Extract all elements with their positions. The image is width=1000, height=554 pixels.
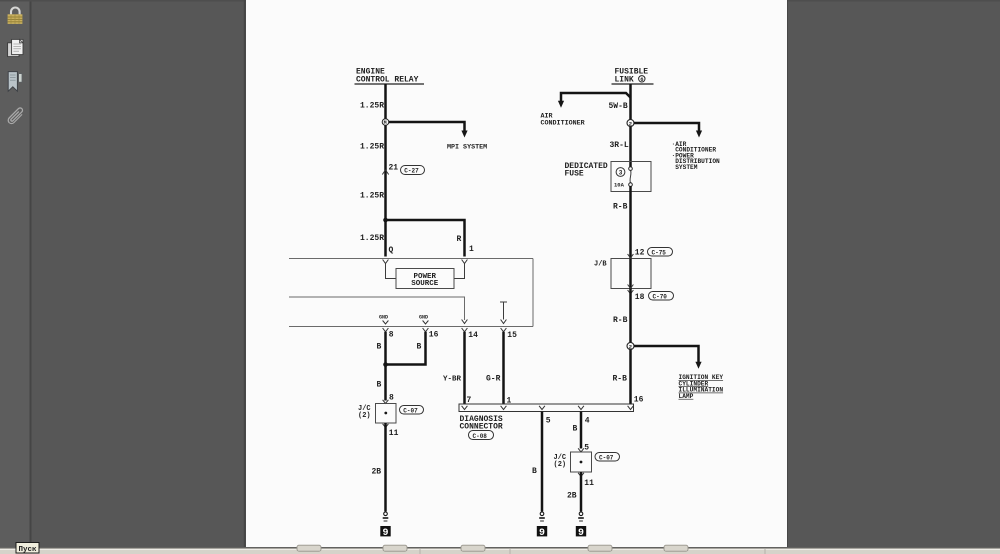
svg-text:GND: GND xyxy=(419,315,428,321)
wire arrow into power source left xyxy=(386,264,397,279)
svg-text:2B: 2B xyxy=(372,468,382,477)
fusible link FL label xyxy=(612,68,654,85)
pin 21 marker with chevron xyxy=(382,164,398,175)
wire fusible link down xyxy=(629,84,632,167)
paperclip icon xyxy=(8,108,22,124)
connector circle C1 on wire xyxy=(382,119,389,127)
sidebar xyxy=(0,0,30,548)
entry arrow pin7 xyxy=(462,406,468,410)
svg-text:G-R: G-R xyxy=(486,375,501,384)
svg-text:1.25R: 1.25R xyxy=(360,234,384,243)
ECU bottom boundary line xyxy=(289,326,533,328)
svg-text:C-08: C-08 xyxy=(473,433,488,440)
svg-text:Q: Q xyxy=(389,246,394,255)
wire pin4 to J/C right xyxy=(580,412,583,449)
relay K1 label ENGINE CONTROL RELAY xyxy=(355,68,425,85)
ground GND marker pin 16 xyxy=(419,315,428,325)
svg-text:2: 2 xyxy=(629,343,632,350)
wire through J/B xyxy=(629,259,632,289)
bookmark icon xyxy=(8,72,22,92)
svg-text:C-07: C-07 xyxy=(403,407,418,414)
wire pin16 to junction xyxy=(386,332,426,365)
svg-text:Пуск: Пуск xyxy=(19,546,38,554)
wire J/C to ground xyxy=(384,423,387,512)
svg-text:MPI SYSTEM: MPI SYSTEM xyxy=(447,144,487,152)
ground ref badge 9 left xyxy=(380,526,390,539)
pin Q entry arrow xyxy=(383,260,389,264)
wire pin15 to diagnosis connector xyxy=(502,332,505,404)
white document page xyxy=(246,0,787,547)
svg-text:8: 8 xyxy=(389,331,394,340)
entry arrow pin1 xyxy=(501,406,507,410)
fuse F1 DEDICATED FUSE xyxy=(565,162,652,192)
wire from relay down to ECU pin Q xyxy=(384,84,387,257)
svg-text:(2): (2) xyxy=(554,461,567,469)
svg-text:M: M xyxy=(384,120,387,126)
svg-text:LINK: LINK xyxy=(615,76,634,85)
ground ref badge 9 right xyxy=(576,526,586,539)
svg-text:3: 3 xyxy=(619,169,623,176)
taskbar xyxy=(0,548,1000,554)
ECU top boundary line xyxy=(289,258,533,260)
svg-text:R-B: R-B xyxy=(613,375,628,384)
ground GND marker pin 8 xyxy=(379,315,388,325)
svg-text:21: 21 xyxy=(389,164,399,173)
entry arrow J/C left xyxy=(383,400,389,404)
svg-text:GND: GND xyxy=(379,315,388,321)
block POWER SOURCE xyxy=(396,269,454,289)
svg-text:C-27: C-27 xyxy=(404,168,419,175)
svg-text:B: B xyxy=(377,343,382,352)
arrow at J/B bottom xyxy=(628,285,634,289)
svg-text:9: 9 xyxy=(539,528,545,539)
ECU middle boundary line xyxy=(289,297,465,320)
svg-text:R-B: R-B xyxy=(613,316,628,325)
exit arrow J/C left xyxy=(383,424,389,428)
svg-text:C-07: C-07 xyxy=(599,454,614,461)
svg-text:B: B xyxy=(573,425,578,434)
ground symbol middle xyxy=(539,512,545,521)
pin 18 arrow below J/B xyxy=(628,290,634,294)
svg-text:B: B xyxy=(377,381,382,390)
svg-text:6: 6 xyxy=(640,76,643,83)
junction node xyxy=(383,362,388,367)
pin 14 exit arrow xyxy=(462,328,468,332)
ground symbol left xyxy=(383,512,389,521)
connector stamp C-70 xyxy=(649,292,674,301)
junction connector J/C (2) left xyxy=(358,404,396,424)
wire J/B to diagnosis connector pin16 xyxy=(629,289,632,405)
svg-text:3R-L: 3R-L xyxy=(610,141,629,150)
svg-text:R-B: R-B xyxy=(613,203,628,212)
wire J/C right to ground xyxy=(580,472,583,512)
svg-text:18: 18 xyxy=(635,293,645,302)
pin 14 arrow above bottom line xyxy=(462,320,468,324)
svg-text:B: B xyxy=(532,467,537,476)
connector stamp C-75 xyxy=(648,248,673,257)
start button tooltip Пуск xyxy=(16,543,39,554)
svg-text:J/B: J/B xyxy=(594,261,607,269)
diagnosis connector box xyxy=(459,404,634,412)
svg-text:2B: 2B xyxy=(567,492,577,501)
entry arrow pin5 xyxy=(539,406,545,410)
branch wire to air conditioner xyxy=(558,93,631,108)
svg-text:16: 16 xyxy=(429,331,439,340)
pin 8 exit arrow xyxy=(383,328,389,332)
top edge line xyxy=(0,0,1000,2)
svg-text:11: 11 xyxy=(389,429,399,438)
pages icon xyxy=(8,39,23,56)
entry arrow J/C right xyxy=(578,448,584,452)
svg-text:1.25R: 1.25R xyxy=(360,102,384,111)
branch wire to ignition key lamp xyxy=(634,346,702,369)
svg-text:5W-B: 5W-B xyxy=(609,102,628,111)
svg-text:14: 14 xyxy=(468,331,478,340)
connector stamp C-07 left xyxy=(400,406,424,415)
svg-text:FUSE: FUSE xyxy=(565,170,584,179)
svg-text:Y-BR: Y-BR xyxy=(443,376,462,384)
connector circle 2 upper xyxy=(627,120,634,128)
svg-text:11: 11 xyxy=(584,479,594,488)
svg-text:16: 16 xyxy=(634,396,644,405)
node IGNITION KEY CYLINDER ILLUMINATION LAMP xyxy=(679,374,724,400)
svg-text:5: 5 xyxy=(584,444,589,453)
ground ref badge 9 middle xyxy=(537,526,547,539)
svg-text:1: 1 xyxy=(469,245,474,254)
wire branch junction to ECU pin 1 xyxy=(386,220,465,257)
svg-text:10A: 10A xyxy=(614,182,625,189)
wire pin8 ground run xyxy=(384,332,387,401)
svg-text:1.25R: 1.25R xyxy=(360,192,384,201)
svg-text:C-70: C-70 xyxy=(653,293,668,300)
wire branch to MPI SYSTEM xyxy=(389,122,468,138)
svg-text:8: 8 xyxy=(389,394,394,403)
node AIR CONDITIONER left xyxy=(541,113,585,128)
entry arrow pin16 xyxy=(628,406,634,410)
svg-text:C-75: C-75 xyxy=(652,249,667,256)
node AIR CONDITIONER POWER DISTRIBUTION SYSTEM xyxy=(672,141,721,171)
pin 12 arrow xyxy=(628,254,634,258)
ground symbol right xyxy=(578,512,584,521)
junction node xyxy=(383,218,388,223)
connector stamp C-08 xyxy=(469,431,494,440)
svg-text:9: 9 xyxy=(382,528,388,539)
pin 1 entry arrow xyxy=(462,260,468,264)
junction connector J/C (2) right xyxy=(554,452,592,472)
svg-text:CONTROL RELAY: CONTROL RELAY xyxy=(356,76,419,85)
wire pin14 to diagnosis connector xyxy=(463,332,466,404)
connector stamp C-07 right xyxy=(595,453,620,462)
taskbar button tabs peeking above taskbar xyxy=(297,545,688,551)
pin 16 exit arrow xyxy=(423,328,429,332)
svg-text:4: 4 xyxy=(585,417,590,426)
connector circle 2 lower xyxy=(627,343,634,351)
svg-text:SYSTEM: SYSTEM xyxy=(675,164,698,171)
branch wire to AC power distribution xyxy=(634,123,702,138)
svg-text:1.25R: 1.25R xyxy=(360,143,384,152)
wire fuse to J/B xyxy=(629,186,632,259)
svg-text:5: 5 xyxy=(546,417,551,426)
lock icon xyxy=(8,8,23,24)
junction block J/B xyxy=(594,259,651,289)
svg-text:R: R xyxy=(457,235,462,244)
ECU right boundary xyxy=(532,259,534,327)
pin 15 exit arrow xyxy=(501,328,507,332)
svg-text:9: 9 xyxy=(578,528,584,539)
svg-text:(2): (2) xyxy=(358,412,371,420)
svg-text:B: B xyxy=(417,343,422,352)
svg-text:12: 12 xyxy=(635,249,645,258)
svg-text:15: 15 xyxy=(507,331,517,340)
internal stub T to pin 15 xyxy=(500,302,507,324)
svg-text:LAMP: LAMP xyxy=(679,393,694,400)
svg-text:SOURCE: SOURCE xyxy=(411,280,439,288)
entry arrow pin4 xyxy=(578,406,584,410)
svg-text:CONDITIONER: CONDITIONER xyxy=(541,120,585,128)
svg-text:2: 2 xyxy=(629,120,632,127)
wire arrow into power source right xyxy=(454,264,465,279)
exit arrow J/C right xyxy=(578,473,584,477)
label DIAGNOSIS CONNECTOR xyxy=(460,415,503,432)
wire pin5 to ground xyxy=(541,412,544,512)
connector stamp C-27 xyxy=(401,166,425,175)
